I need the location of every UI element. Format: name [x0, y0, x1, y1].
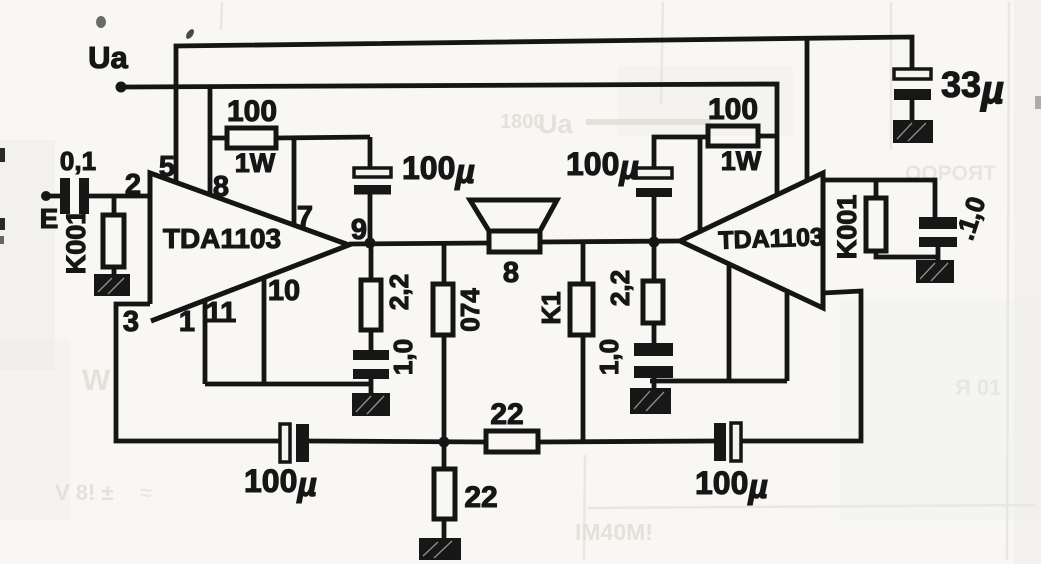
wire: right pin stub a — [727, 264, 732, 381]
wire: 100K right top stub — [874, 180, 879, 198]
svg-text:100µ: 100µ — [695, 465, 768, 506]
wire: 100K top stub — [112, 196, 117, 215]
svg-text:22: 22 — [490, 398, 523, 431]
svg-text:9: 9 — [351, 214, 367, 246]
wire: right pin7 drop — [698, 137, 703, 231]
wire: pin7 drop — [292, 138, 297, 225]
wire: ground tap rail (pins 11,10 to 0,1 junction) — [205, 382, 371, 387]
capacitor 100u (left, polarized) — [354, 168, 391, 195]
svg-text:100µ: 100µ — [566, 146, 639, 187]
op-amp U2 TDA1103 (right) — [680, 173, 823, 308]
resistor 1K — [570, 284, 593, 335]
wire: 100u left cap to node 9 — [368, 194, 373, 243]
capacitor 100u right top — [636, 168, 672, 197]
wire: 22 vertical stubs — [442, 442, 447, 538]
resistor 2,2 left — [361, 280, 381, 330]
svg-text:TDA1103: TDA1103 — [163, 223, 281, 254]
svg-text:1,0: 1,0 — [388, 339, 418, 375]
svg-text:W: W — [82, 364, 111, 397]
wire: 470 drop from output rail — [442, 244, 447, 442]
ground (far right) — [916, 260, 954, 283]
wire: right input lead to 0,1 — [823, 180, 935, 217]
svg-text:2,2: 2,2 — [384, 274, 414, 310]
wire: pin 3 feedback down-left to bottom rail — [116, 304, 280, 441]
resistor 100K right — [866, 198, 886, 251]
wire: output rail left (apex to speaker) — [349, 243, 489, 244]
wire: 100 right lead to Ua riser — [758, 134, 777, 139]
ground (input) — [94, 274, 130, 296]
wire: bottom rail middle — [309, 441, 486, 442]
resistor 22 vertical — [434, 469, 455, 519]
svg-text:Ua: Ua — [88, 40, 128, 75]
wire: 2,2 left stub top — [369, 243, 374, 281]
wire: 2,2 left bottom stub — [369, 330, 374, 351]
wire: output rail right (speaker to right apex) — [540, 241, 680, 242]
svg-text:22: 22 — [464, 481, 497, 514]
wire: input lead E to pin 2 — [46, 194, 150, 199]
resistor 100K (input) — [103, 215, 124, 267]
svg-text:8: 8 — [213, 171, 229, 203]
capacitor 33u — [894, 69, 931, 100]
wire: 100K bottom stub — [112, 267, 117, 276]
svg-text:2,2: 2,2 — [605, 270, 635, 306]
svg-text:E: E — [40, 203, 59, 234]
wire: 100K right bottom lead — [876, 251, 938, 257]
resistor 100 1W right — [708, 126, 758, 146]
svg-text:TDA1103: TDA1103 — [718, 223, 825, 255]
wire: left amp pin8 riser — [208, 87, 213, 195]
svg-text:K001: K001 — [61, 210, 91, 275]
svg-text:Я 01: Я 01 — [955, 375, 1001, 400]
speaker 8 ohm — [470, 200, 557, 252]
capacitor 0,1 right — [634, 343, 673, 378]
svg-text:0,1: 0,1 — [60, 146, 96, 176]
node right output junction — [649, 237, 660, 248]
svg-text:≈: ≈ — [140, 480, 152, 505]
node E input terminal — [41, 191, 51, 201]
wire: 33u stub — [910, 100, 915, 120]
node Ua terminal — [116, 82, 127, 93]
svg-text:K1: K1 — [536, 291, 566, 324]
ground (left 0,1) — [352, 393, 390, 416]
svg-text:3: 3 — [123, 306, 139, 338]
resistor 100 1W (left) — [227, 128, 276, 148]
wire: bottom rail right of 22 — [538, 441, 714, 442]
svg-text:1,0: 1,0 — [594, 339, 624, 375]
wire: pin 11 stub — [203, 299, 208, 384]
resistor 2,2 right — [643, 281, 663, 323]
wire: right ground tap rail — [650, 379, 787, 384]
svg-text:11: 11 — [206, 297, 237, 329]
wire: pin5 riser, top supply rail, drop to 33u — [176, 37, 912, 182]
wire: 100u right cap stub to node — [652, 197, 657, 242]
svg-text:1800: 1800 — [500, 111, 545, 133]
svg-text:100: 100 — [708, 93, 758, 126]
svg-text:100µ: 100µ — [244, 463, 317, 504]
wire: 1K drop — [581, 242, 586, 441]
ground (22) — [419, 538, 461, 560]
svg-text:IM40M!: IM40M! — [575, 519, 653, 545]
ground (right 0,1) — [630, 388, 671, 414]
svg-text:K001: K001 — [832, 195, 862, 260]
svg-text:5: 5 — [159, 151, 175, 183]
svg-text:33µ: 33µ — [941, 64, 1004, 112]
wire: R 100 right lead across to cap drop — [276, 137, 370, 138]
svg-text:10: 10 — [268, 275, 300, 307]
wire: 0,1 left stub to ground — [369, 379, 374, 394]
svg-text:7: 7 — [297, 201, 313, 233]
op-amp U1 TDA1103 (left) — [150, 173, 349, 321]
wire: 100 right left lead and cap top — [654, 137, 708, 168]
capacitor 100u bottom right — [714, 423, 741, 461]
wire: pin 10 stub — [262, 278, 267, 384]
wire: right feedback loop to bottom rail — [741, 291, 861, 441]
capacitor 0,1 left — [353, 350, 389, 379]
node 9 junction — [365, 238, 376, 249]
svg-text:1W: 1W — [721, 146, 762, 176]
svg-text:1W: 1W — [235, 148, 276, 178]
wire: Ua rail to right amp pin8 — [121, 84, 777, 196]
capacitor 0,1 far right — [919, 217, 957, 247]
wire: 0,1 far right stub — [936, 247, 941, 260]
resistor 470 — [433, 284, 453, 335]
svg-text:100: 100 — [227, 95, 277, 128]
svg-text:074: 074 — [455, 288, 485, 332]
svg-text:8: 8 — [503, 257, 519, 289]
wire: 2,2 right stubs — [652, 242, 657, 389]
node bottom junction — [439, 437, 450, 448]
wire: R 100 1W left lead — [210, 136, 227, 141]
capacitor 100u bottom left — [280, 424, 309, 462]
svg-text:100µ: 100µ — [402, 150, 475, 191]
svg-text:1: 1 — [179, 306, 195, 338]
resistor 22 horizontal — [486, 431, 538, 452]
svg-text:V 8! ±: V 8! ± — [55, 480, 114, 505]
capacitor 0,1 input — [60, 178, 89, 214]
wire: drop to 100u left cap — [368, 137, 373, 168]
wire: right pin5 riser — [805, 38, 810, 181]
wire: right pin stub b — [785, 293, 790, 381]
ground (33u) — [893, 120, 933, 143]
